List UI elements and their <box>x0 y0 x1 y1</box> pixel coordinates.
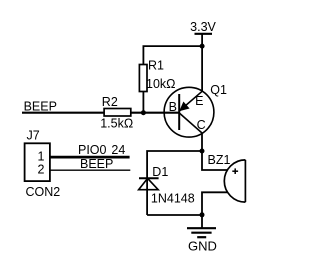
svg-text:PIO0: PIO0 <box>78 143 107 157</box>
transistor Q1 <box>164 87 214 137</box>
ground <box>187 228 216 237</box>
svg-text:C: C <box>197 118 206 132</box>
node supply junction <box>200 44 205 49</box>
wire node to D1 top <box>147 151 202 178</box>
buzzer BZ1 <box>224 160 245 202</box>
node R1/BEEP junction <box>141 110 146 115</box>
svg-text:R2: R2 <box>102 95 118 109</box>
svg-text:BEEP: BEEP <box>24 99 57 113</box>
wire supply to R1 top <box>143 46 202 65</box>
wire to GND <box>201 215 203 228</box>
svg-text:GND: GND <box>188 239 217 254</box>
svg-text:1.5kΩ: 1.5kΩ <box>100 116 133 130</box>
connector J7 <box>25 143 50 181</box>
svg-text:BZ1: BZ1 <box>208 153 231 167</box>
svg-text:E: E <box>195 94 203 108</box>
resistor R1 <box>139 65 147 92</box>
svg-text:Q1: Q1 <box>210 83 227 97</box>
svg-text:CON2: CON2 <box>26 185 61 199</box>
svg-text:R1: R1 <box>148 59 164 73</box>
svg-text:10kΩ: 10kΩ <box>146 77 176 91</box>
svg-text:1N4148: 1N4148 <box>151 191 195 205</box>
svg-text:J7: J7 <box>27 129 40 143</box>
diode D1 <box>139 178 159 215</box>
power 3.3V bar <box>195 33 213 35</box>
svg-text:3.3V: 3.3V <box>190 20 216 34</box>
node ground junction <box>200 212 205 217</box>
svg-text:2: 2 <box>38 162 45 176</box>
resistor R2 <box>104 109 131 117</box>
svg-text:D1: D1 <box>152 165 168 179</box>
wire BEEP to R2 <box>22 112 104 114</box>
wire pin1 PIO0_24 <box>50 156 130 159</box>
wire buzzer bottom to ground node <box>202 192 227 215</box>
svg-text:BEEP: BEEP <box>80 157 113 171</box>
wire R2 to base <box>131 112 180 114</box>
node collector junction <box>200 149 205 154</box>
svg-text:24: 24 <box>111 143 125 157</box>
wire pin2 BEEP <box>50 169 130 171</box>
wire 3.3V to emitter <box>201 34 203 92</box>
wire node to buzzer top <box>202 151 228 170</box>
wire R1 bottom lead <box>142 92 144 113</box>
wire D1 bottom to ground node <box>147 214 202 216</box>
svg-text:B: B <box>169 100 177 114</box>
wire collector down <box>201 133 203 151</box>
